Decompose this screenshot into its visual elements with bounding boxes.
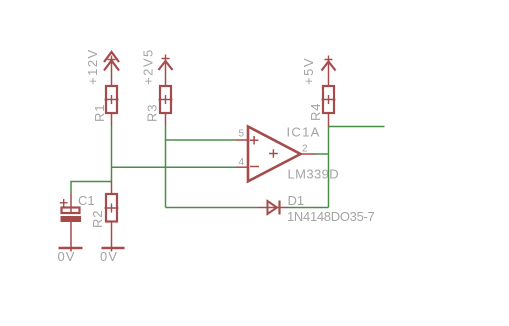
wire diode row horizontal (R3 vertical to output vertical): [166, 207, 329, 209]
svg-text:R4: R4: [308, 103, 323, 121]
resistor R2: [90, 182, 119, 252]
svg-text:4: 4: [238, 157, 244, 168]
wire C1 branch (C1 up and right to R1/R2 node): [71, 182, 112, 194]
svg-text:0V: 0V: [58, 249, 76, 264]
svg-text:5: 5: [238, 129, 244, 140]
wire pin2 output stub: [316, 153, 329, 155]
svg-text:D1: D1: [288, 193, 305, 208]
wire R3 net vertical (R3 bottom to diode row): [165, 126, 167, 208]
supply +2V5: [141, 48, 173, 86]
svg-text:C1: C1: [78, 193, 95, 208]
svg-text:+2V5: +2V5: [141, 48, 156, 85]
supply +12V: [85, 48, 119, 86]
svg-text:IC1A: IC1A: [287, 125, 321, 140]
supply +5V: [301, 56, 336, 87]
wire output vertical (R4 down to diode row): [328, 127, 330, 208]
svg-text:R2: R2: [90, 210, 105, 228]
resistor R1: [92, 86, 119, 126]
diode D1: [258, 193, 375, 224]
svg-text:R1: R1: [92, 104, 107, 122]
svg-text:LM339D: LM339D: [288, 167, 340, 182]
ground 0V under C1: [58, 248, 83, 264]
wire output horizontal top right: [329, 126, 385, 128]
svg-text:+12V: +12V: [85, 48, 100, 85]
svg-text:+5V: +5V: [301, 57, 316, 85]
ground 0V under R2: [100, 248, 125, 264]
svg-text:2: 2: [302, 144, 308, 155]
resistor R4: [308, 86, 336, 127]
wire R1-R2 net vertical: [111, 126, 113, 182]
wire pin5 net horizontal (R3 vertical to IC1A pin 5): [166, 139, 237, 141]
resistor R3: [145, 86, 173, 126]
capacitor C1: [60, 193, 95, 252]
op-amp IC1A: [236, 125, 339, 182]
wire pin4 net horizontal (R1/R2 node to IC1A pin 4): [112, 166, 237, 168]
svg-text:0V: 0V: [100, 249, 118, 264]
svg-text:1N4148DO35-7: 1N4148DO35-7: [287, 209, 375, 224]
svg-text:R3: R3: [145, 104, 160, 122]
